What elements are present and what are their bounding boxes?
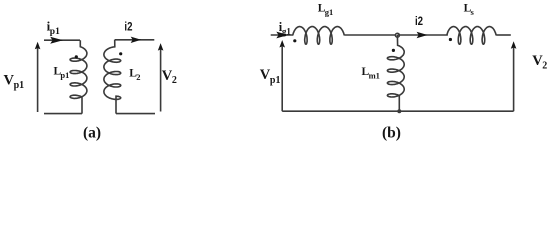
svg-text:g1: g1 (325, 7, 334, 17)
svg-text:(b): (b) (382, 125, 401, 142)
polarity dot L_p1 (75, 55, 78, 58)
wire top-left loop (a) (44, 39, 80, 41)
current arrow i_p1 (50, 37, 63, 44)
svg-text:g1: g1 (282, 26, 292, 36)
polarity dot L_2 (119, 52, 122, 55)
svg-text:p1: p1 (60, 70, 69, 80)
inductor L_2 coil (104, 40, 121, 114)
current arrow i_g1 (276, 32, 288, 39)
svg-text:m1: m1 (369, 70, 380, 80)
svg-text:s: s (471, 7, 475, 17)
junction node top (b) (395, 33, 399, 37)
wire/voltage arrow V_p1 (b) (281, 47, 283, 112)
svg-text:i2: i2 (415, 15, 423, 28)
inductor L_p1 coil (70, 40, 87, 113)
wire node to L_s (b) (397, 34, 447, 36)
junction node bottom (b) (397, 109, 401, 113)
voltage arrow V_2 (b) (513, 47, 515, 111)
wire bottom-left loop (a) (44, 113, 82, 115)
svg-text:p1: p1 (50, 27, 60, 37)
label i2 (a) (124, 21, 132, 34)
svg-text:p1: p1 (14, 80, 25, 91)
polarity dot L_m1 (392, 49, 395, 52)
wire top-right loop (a) (115, 39, 155, 41)
svg-text:p1: p1 (270, 75, 281, 86)
wire L_g1 to node (b) (344, 34, 397, 36)
wire bottom-right loop (a) (116, 113, 155, 115)
svg-text:2: 2 (542, 61, 547, 72)
voltage arrow V_p1 (a) (37, 47, 39, 113)
wire top rail left (b) (271, 34, 293, 36)
svg-text:(a): (a) (83, 125, 101, 142)
current arrow i2 (a) (131, 37, 142, 43)
polarity dot L_g1 (293, 39, 296, 42)
svg-text:2: 2 (136, 72, 140, 82)
inductor L_s coil (447, 27, 496, 45)
voltage arrow V_2 (a) (160, 48, 162, 112)
inductor L_g1 coil (293, 27, 345, 45)
svg-text:i2: i2 (124, 21, 132, 34)
inductor L_m1 coil (387, 35, 404, 111)
label i2 (b) (415, 15, 423, 28)
polarity dot L_s (449, 38, 452, 41)
wire bottom rail (b) (282, 110, 513, 112)
current arrow i2 (b) (417, 32, 428, 39)
svg-text:2: 2 (172, 75, 177, 86)
wire top rail right (b) (496, 34, 511, 36)
